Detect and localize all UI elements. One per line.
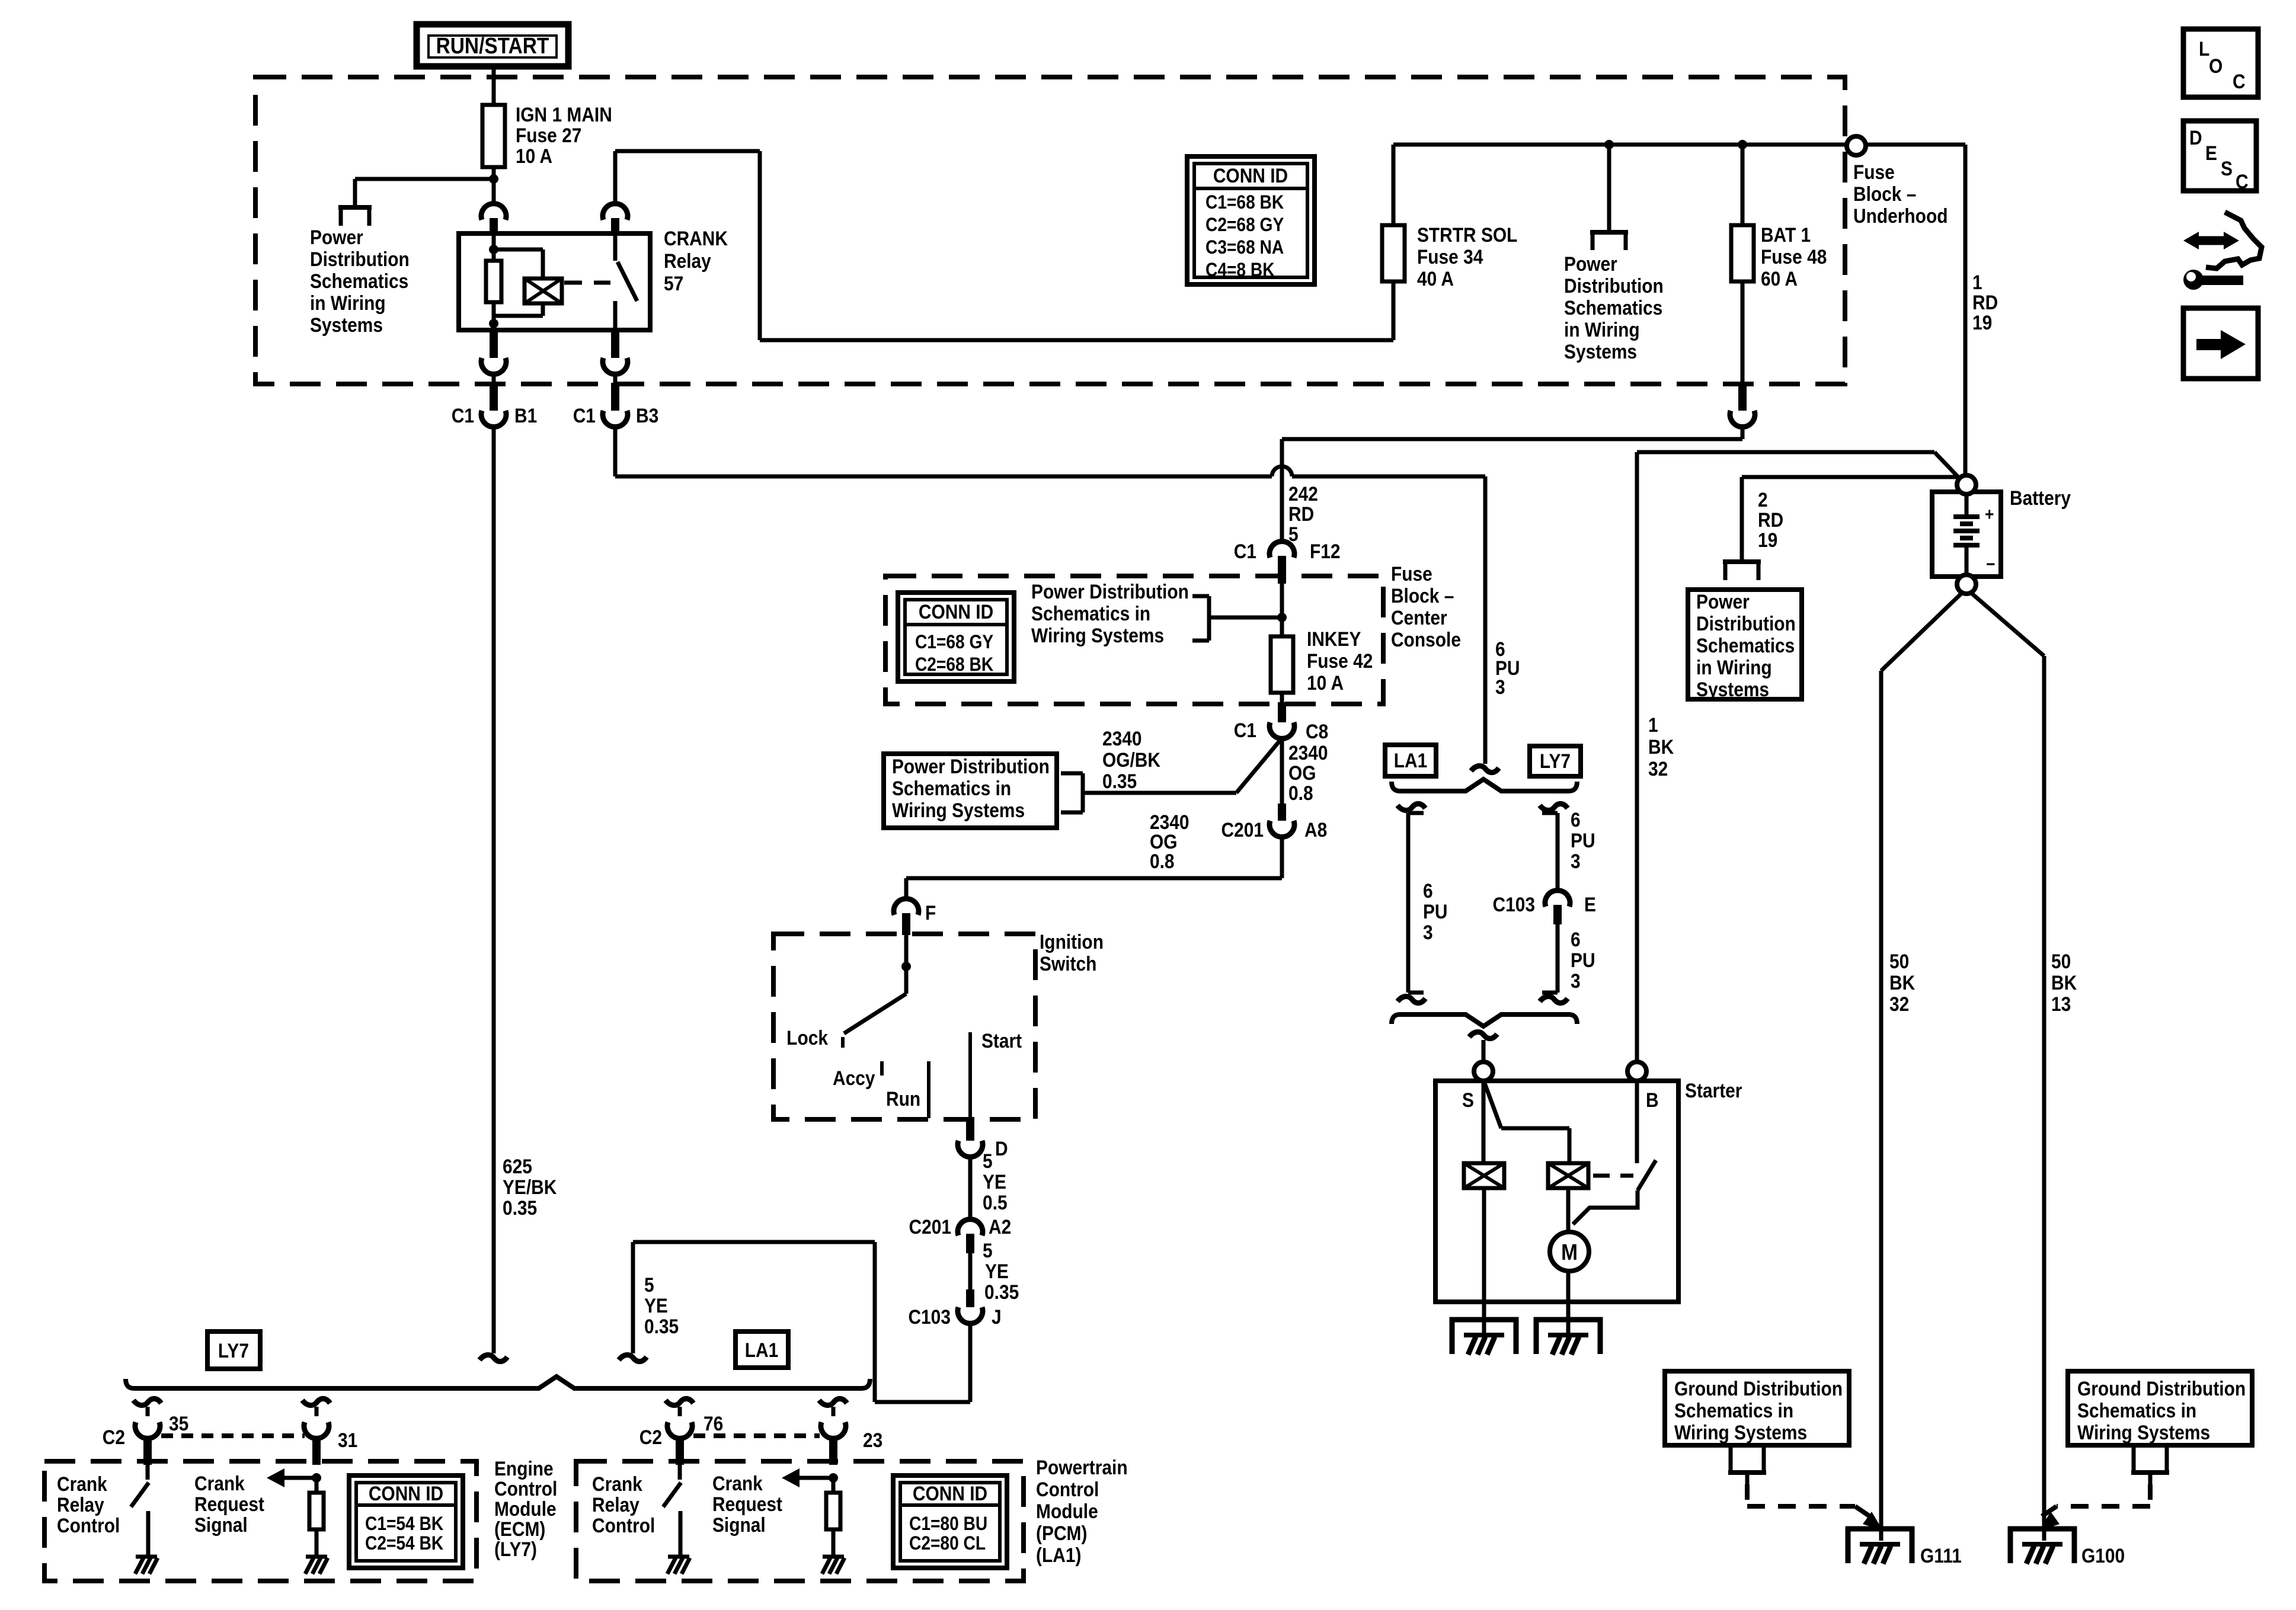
svg-text:S: S [2221, 157, 2233, 180]
svg-text:Control: Control [494, 1477, 557, 1500]
svg-text:Fuse 42: Fuse 42 [1307, 649, 1373, 672]
svg-text:A2: A2 [989, 1215, 1011, 1238]
svg-text:C1=68 BK: C1=68 BK [1205, 192, 1284, 213]
svg-text:Request: Request [194, 1493, 264, 1515]
svg-text:Fuse: Fuse [1853, 161, 1895, 183]
svg-text:LY7: LY7 [1540, 750, 1571, 772]
svg-text:Relay: Relay [664, 249, 711, 272]
svg-text:Crank: Crank [712, 1472, 763, 1494]
svg-text:Accy: Accy [833, 1067, 875, 1089]
svg-text:0.5: 0.5 [983, 1191, 1008, 1214]
svg-text:in Wiring: in Wiring [310, 292, 386, 314]
svg-text:C1: C1 [573, 404, 596, 427]
svg-text:Ground Distribution: Ground Distribution [2077, 1377, 2246, 1400]
svg-text:Fuse 27: Fuse 27 [516, 124, 581, 146]
svg-text:50: 50 [1889, 950, 1909, 972]
svg-text:PU: PU [1571, 829, 1595, 852]
svg-text:C1: C1 [452, 404, 474, 427]
svg-text:Underhood: Underhood [1853, 204, 1948, 227]
svg-text:Console: Console [1391, 628, 1461, 651]
svg-text:Request: Request [712, 1493, 782, 1515]
svg-text:3: 3 [1423, 921, 1433, 943]
svg-text:BK: BK [1648, 735, 1674, 758]
svg-text:BAT 1: BAT 1 [1761, 223, 1811, 246]
svg-text:40 A: 40 A [1417, 267, 1454, 290]
svg-text:CONN ID: CONN ID [919, 600, 993, 623]
svg-text:BK: BK [1889, 971, 1915, 994]
svg-text:Ground Distribution: Ground Distribution [1674, 1377, 1843, 1400]
svg-text:19: 19 [1758, 529, 1777, 551]
svg-text:OG/BK: OG/BK [1102, 748, 1160, 771]
svg-text:Control: Control [592, 1514, 655, 1537]
svg-text:Schematics: Schematics [1564, 296, 1662, 319]
svg-text:(ECM): (ECM) [494, 1518, 545, 1540]
svg-text:Schematics: Schematics [1696, 634, 1795, 657]
svg-text:Wiring Systems: Wiring Systems [2077, 1421, 2210, 1443]
svg-text:1: 1 [1648, 713, 1658, 736]
svg-text:13: 13 [2051, 993, 2071, 1015]
svg-text:Distribution: Distribution [1696, 612, 1796, 635]
svg-text:Systems: Systems [1564, 340, 1637, 363]
svg-text:35: 35 [169, 1412, 188, 1435]
svg-text:CONN ID: CONN ID [1213, 164, 1288, 187]
svg-text:LA1: LA1 [1394, 749, 1428, 772]
svg-text:Wiring Systems: Wiring Systems [1031, 624, 1164, 646]
svg-text:Fuse: Fuse [1391, 562, 1432, 585]
svg-text:O: O [2209, 55, 2223, 77]
svg-text:C201: C201 [909, 1215, 952, 1238]
svg-text:C1: C1 [1234, 540, 1256, 562]
svg-text:PU: PU [1571, 949, 1595, 971]
svg-text:E: E [1584, 893, 1596, 916]
svg-text:Power: Power [310, 226, 363, 248]
svg-text:L: L [2199, 37, 2209, 60]
svg-text:2340: 2340 [1288, 741, 1328, 764]
svg-text:+: + [1985, 504, 1994, 524]
svg-text:M: M [1561, 1240, 1578, 1265]
svg-text:RD: RD [1288, 502, 1314, 525]
svg-text:Systems: Systems [310, 313, 383, 336]
svg-text:Module: Module [1036, 1500, 1098, 1522]
svg-text:Schematics in: Schematics in [1674, 1399, 1793, 1422]
svg-text:3: 3 [1571, 850, 1581, 872]
svg-text:(LY7): (LY7) [494, 1538, 537, 1560]
svg-text:0.35: 0.35 [644, 1315, 679, 1337]
svg-text:23: 23 [863, 1429, 882, 1451]
svg-text:PU: PU [1423, 900, 1448, 923]
svg-text:C: C [2236, 170, 2249, 193]
svg-text:Schematics: Schematics [310, 270, 408, 292]
svg-text:242: 242 [1288, 482, 1318, 505]
svg-text:LA1: LA1 [745, 1339, 779, 1361]
svg-text:625: 625 [503, 1155, 532, 1177]
svg-text:0.35: 0.35 [1102, 770, 1137, 792]
svg-text:C201: C201 [1221, 818, 1264, 841]
svg-text:Powertrain: Powertrain [1036, 1456, 1128, 1478]
svg-text:Crank: Crank [57, 1473, 107, 1495]
svg-text:Ignition: Ignition [1040, 930, 1104, 953]
svg-text:Engine: Engine [494, 1457, 554, 1480]
svg-text:J: J [992, 1305, 1002, 1328]
svg-text:Schematics in: Schematics in [2077, 1399, 2196, 1422]
svg-text:6: 6 [1571, 928, 1581, 950]
svg-text:in Wiring: in Wiring [1696, 656, 1772, 678]
svg-text:Wiring Systems: Wiring Systems [1674, 1421, 1807, 1443]
svg-text:C1=68 GY: C1=68 GY [915, 632, 993, 652]
svg-text:C1=54 BK: C1=54 BK [365, 1513, 443, 1534]
svg-text:YE: YE [983, 1170, 1006, 1193]
svg-text:C1=80 BU: C1=80 BU [909, 1513, 987, 1534]
svg-text:C4=8 BK: C4=8 BK [1205, 260, 1275, 280]
svg-text:2: 2 [1758, 488, 1768, 511]
svg-text:STRTR SOL: STRTR SOL [1417, 223, 1517, 246]
svg-text:INKEY: INKEY [1307, 628, 1361, 650]
svg-text:Wiring Systems: Wiring Systems [892, 799, 1025, 821]
svg-text:C8: C8 [1306, 720, 1328, 742]
svg-text:Power: Power [1564, 252, 1617, 275]
svg-text:Starter: Starter [1685, 1079, 1742, 1102]
svg-text:6: 6 [1571, 808, 1581, 831]
svg-text:OG: OG [1288, 761, 1316, 784]
svg-text:Crank: Crank [194, 1472, 245, 1494]
svg-text:6: 6 [1423, 879, 1433, 902]
svg-text:60 A: 60 A [1761, 267, 1798, 290]
svg-text:5: 5 [983, 1239, 993, 1262]
svg-text:0.35: 0.35 [503, 1196, 537, 1219]
svg-text:C3=68 NA: C3=68 NA [1205, 237, 1284, 258]
svg-text:F12: F12 [1310, 540, 1341, 562]
svg-text:F: F [925, 901, 936, 924]
svg-text:B1: B1 [514, 404, 537, 427]
svg-text:YE: YE [985, 1260, 1009, 1282]
svg-text:32: 32 [1648, 757, 1668, 780]
svg-text:C2=68 GY: C2=68 GY [1205, 215, 1284, 235]
svg-text:RUN/START: RUN/START [436, 33, 549, 58]
svg-text:Lock: Lock [786, 1026, 828, 1049]
svg-text:19: 19 [1972, 311, 1992, 334]
svg-text:C103: C103 [1493, 893, 1536, 916]
svg-text:Relay: Relay [57, 1493, 104, 1516]
svg-text:E: E [2205, 142, 2217, 164]
svg-text:57: 57 [664, 272, 683, 295]
svg-text:RD: RD [1758, 508, 1783, 531]
svg-text:10 A: 10 A [516, 145, 552, 167]
svg-text:Block –: Block – [1391, 584, 1454, 607]
svg-text:C1: C1 [1234, 719, 1256, 741]
svg-text:(PCM): (PCM) [1036, 1522, 1087, 1544]
svg-text:Start: Start [981, 1029, 1022, 1052]
svg-text:Module: Module [494, 1497, 557, 1520]
svg-text:YE/BK: YE/BK [503, 1176, 557, 1198]
svg-text:S: S [1462, 1089, 1474, 1111]
svg-text:1: 1 [1972, 271, 1982, 293]
svg-text:Center: Center [1391, 606, 1447, 629]
svg-text:C2=80 CL: C2=80 CL [909, 1533, 986, 1554]
svg-text:C2: C2 [103, 1426, 125, 1448]
svg-text:B: B [1646, 1089, 1659, 1111]
svg-text:Control: Control [1036, 1478, 1099, 1500]
svg-text:Power: Power [1696, 590, 1750, 613]
svg-text:Block –: Block – [1853, 183, 1916, 205]
svg-text:31: 31 [338, 1429, 357, 1451]
svg-text:50: 50 [2051, 950, 2071, 972]
svg-text:in Wiring: in Wiring [1564, 318, 1640, 341]
svg-text:Distribution: Distribution [1564, 274, 1664, 297]
svg-text:LY7: LY7 [218, 1339, 249, 1362]
svg-text:Relay: Relay [592, 1493, 639, 1516]
svg-text:Run: Run [886, 1087, 920, 1110]
svg-text:3: 3 [1571, 969, 1581, 992]
svg-text:5: 5 [983, 1150, 993, 1172]
svg-text:Switch: Switch [1040, 952, 1096, 975]
svg-text:0.8: 0.8 [1288, 782, 1313, 804]
svg-text:D: D [995, 1137, 1008, 1160]
svg-text:(LA1): (LA1) [1036, 1544, 1081, 1566]
svg-text:G100: G100 [2081, 1544, 2125, 1567]
svg-text:CRANK: CRANK [664, 227, 728, 249]
svg-text:RD: RD [1972, 291, 1998, 313]
svg-text:0.8: 0.8 [1150, 850, 1175, 872]
svg-text:76: 76 [703, 1412, 723, 1435]
svg-text:5: 5 [644, 1273, 654, 1296]
svg-text:Systems: Systems [1696, 678, 1769, 700]
svg-text:Fuse 48: Fuse 48 [1761, 245, 1827, 268]
svg-text:G111: G111 [1920, 1544, 1962, 1567]
svg-text:Fuse 34: Fuse 34 [1417, 245, 1483, 268]
svg-text:Schematics in: Schematics in [1031, 602, 1150, 625]
svg-text:Power Distribution: Power Distribution [892, 755, 1050, 777]
svg-text:Control: Control [57, 1514, 120, 1537]
svg-text:2340: 2340 [1102, 727, 1142, 750]
svg-text:C2=68 BK: C2=68 BK [915, 654, 993, 675]
svg-text:Signal: Signal [194, 1513, 248, 1536]
svg-text:C2=54 BK: C2=54 BK [365, 1533, 443, 1554]
svg-text:CONN ID: CONN ID [913, 1482, 987, 1505]
svg-text:32: 32 [1889, 993, 1909, 1015]
svg-text:10 A: 10 A [1307, 671, 1344, 694]
svg-text:YE: YE [644, 1294, 668, 1317]
svg-text:A8: A8 [1304, 818, 1327, 841]
svg-text:Signal: Signal [712, 1513, 766, 1536]
svg-text:C2: C2 [639, 1426, 662, 1448]
svg-text:3: 3 [1495, 676, 1505, 698]
svg-text:Schematics in: Schematics in [892, 777, 1011, 799]
svg-text:C103: C103 [908, 1305, 951, 1328]
svg-text:0.35: 0.35 [984, 1281, 1019, 1303]
svg-text:Crank: Crank [592, 1473, 642, 1495]
svg-text:Battery: Battery [2010, 486, 2071, 509]
svg-text:B3: B3 [636, 404, 658, 427]
svg-text:C: C [2233, 70, 2246, 92]
svg-text:D: D [2189, 126, 2202, 149]
svg-text:BK: BK [2051, 971, 2077, 994]
svg-text:CONN ID: CONN ID [369, 1482, 443, 1505]
svg-text:Distribution: Distribution [310, 248, 410, 270]
svg-text:Power Distribution: Power Distribution [1031, 580, 1189, 603]
svg-text:−: − [1986, 553, 1995, 574]
svg-text:IGN 1 MAIN: IGN 1 MAIN [516, 103, 612, 126]
